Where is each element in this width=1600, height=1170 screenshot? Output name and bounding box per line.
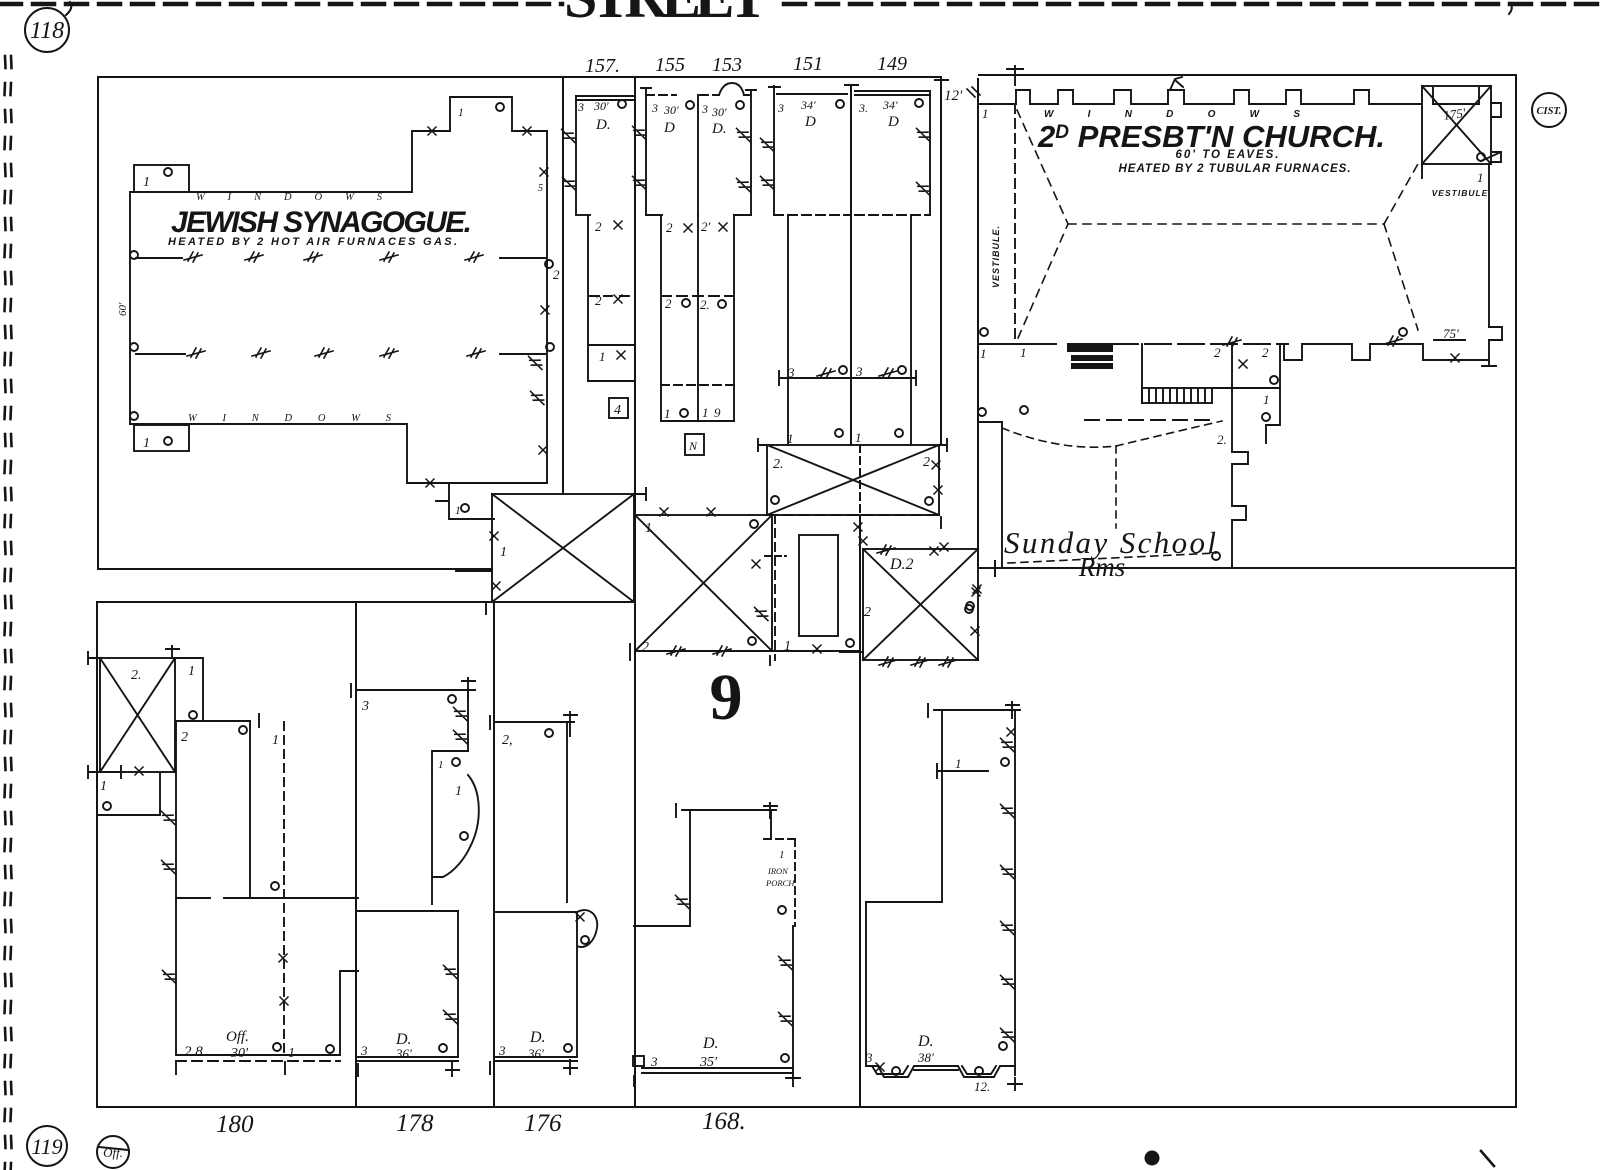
svg-text:WINDOWS: WINDOWS [188,413,413,424]
svg-text:D.2: D.2 [889,556,914,573]
svg-text:1: 1 [855,430,862,445]
svg-text:1: 1 [100,779,107,794]
svg-text:1: 1 [779,849,785,861]
svg-text:2': 2' [701,219,711,234]
svg-text:75': 75' [1443,326,1459,341]
svg-text:D.: D. [595,117,611,133]
svg-text:VESTIBULE.: VESTIBULE. [991,225,1001,288]
svg-text:2.: 2. [773,457,784,472]
svg-text:Off.: Off. [103,1145,123,1160]
svg-text:1: 1 [645,521,652,536]
svg-text:2: 2 [181,730,188,745]
svg-text:3: 3 [701,102,708,116]
svg-text:118: 118 [30,18,64,44]
svg-text:9: 9 [710,661,743,734]
svg-text:1: 1 [455,505,461,517]
svg-text:JEWISH SYNAGOGUE.: JEWISH SYNAGOGUE. [171,206,473,239]
svg-text:1: 1 [787,431,794,446]
svg-text:3: 3 [865,1050,873,1065]
svg-text:3: 3 [651,101,658,115]
svg-text:178: 178 [396,1110,434,1137]
svg-text:D.: D. [917,1033,934,1050]
svg-text:1: 1 [982,106,989,121]
svg-text:3: 3 [777,101,784,115]
svg-text:2,: 2, [502,733,513,748]
svg-text:168.: 168. [702,1108,746,1135]
svg-text:2.8.: 2.8. [184,1044,207,1060]
svg-text:1: 1 [288,1046,295,1061]
svg-text:175': 175' [1442,105,1466,123]
svg-text:1: 1 [955,756,962,771]
svg-text:2.: 2. [131,668,142,683]
svg-text:1: 1 [455,784,462,799]
svg-text:HEATED BY 2 TUBULAR FURNACES.: HEATED BY 2 TUBULAR FURNACES. [1118,163,1351,175]
svg-text:1: 1 [980,346,987,361]
svg-text:2.: 2. [1217,432,1227,447]
svg-text:N: N [688,439,698,453]
svg-text:2: 2 [665,296,672,311]
svg-text:60' TO EAVES.: 60' TO EAVES. [1175,149,1280,161]
svg-text:D.: D. [702,1035,719,1052]
svg-text:30': 30' [593,99,609,113]
svg-text:12.: 12. [974,1079,990,1094]
svg-text:5: 5 [538,183,543,194]
svg-text:38': 38' [917,1050,934,1065]
svg-text:9: 9 [714,405,721,420]
svg-text:30': 30' [711,105,727,119]
svg-text:1: 1 [188,664,195,679]
svg-text:1: 1 [143,436,150,451]
svg-text:3: 3 [650,1054,658,1069]
svg-text:CIST.: CIST. [1536,106,1561,117]
svg-text:3: 3 [361,699,369,714]
svg-text:1: 1 [1477,170,1484,185]
svg-text:1: 1 [458,107,464,119]
svg-text:180: 180 [216,1111,254,1138]
svg-text:2: 2 [553,267,560,282]
svg-text:1: 1 [599,349,606,364]
svg-text:1: 1 [500,545,507,560]
svg-text:2: 2 [595,293,602,308]
svg-text:1: 1 [438,759,444,771]
svg-text:3.: 3. [858,101,868,115]
svg-text:157.: 157. [585,55,620,77]
svg-text:3: 3 [498,1043,506,1058]
svg-text:119: 119 [31,1134,62,1159]
svg-text:2: 2 [1262,345,1269,360]
svg-text:35': 35' [699,1055,718,1070]
svg-text:D.: D. [711,121,727,137]
svg-text:1: 1 [1020,345,1027,360]
svg-text:2: 2 [864,605,871,620]
svg-text:3: 3 [577,100,584,114]
svg-text:STREET: STREET [564,0,776,30]
svg-text:176: 176 [524,1110,562,1137]
svg-text:VESTIBULE: VESTIBULE [1432,188,1489,198]
svg-text:1: 1 [702,405,709,420]
svg-text:2: 2 [595,219,602,234]
svg-text:Rms: Rms [1078,552,1126,582]
svg-text:WINDOWS: WINDOWS [196,192,402,203]
svg-text:PORCH: PORCH [765,878,795,888]
svg-text:HEATED BY 2 HOT AIR FURNACES G: HEATED BY 2 HOT AIR FURNACES GAS. [168,236,458,248]
svg-text:1: 1 [784,639,791,654]
svg-text:Off.: Off. [226,1029,249,1045]
svg-text:155: 155 [655,54,685,76]
svg-text:2: 2 [666,220,673,235]
svg-text:60': 60' [117,302,129,316]
svg-text:1: 1 [143,175,150,190]
svg-text:149: 149 [877,53,907,75]
svg-text:3: 3 [787,365,795,380]
svg-text:3: 3 [360,1043,368,1058]
svg-text:151: 151 [793,53,823,75]
svg-text:34': 34' [800,98,816,112]
svg-text:36': 36' [527,1046,544,1061]
svg-text:IRON: IRON [767,866,789,876]
svg-text:2: 2 [642,640,649,655]
svg-text:2.: 2. [700,297,710,312]
svg-text:2: 2 [1214,345,1221,360]
svg-text:153: 153 [712,54,742,76]
svg-text:WINDOWS: WINDOWS [1044,109,1334,120]
svg-text:30': 30' [230,1046,249,1061]
svg-text:1: 1 [272,733,279,748]
svg-text:12': 12' [944,88,963,104]
svg-text:36': 36' [395,1046,412,1061]
svg-text:D: D [887,114,899,130]
svg-text:34': 34' [882,98,898,112]
svg-text:3: 3 [855,364,863,379]
svg-text:D: D [663,120,675,136]
svg-text:30': 30' [663,103,679,117]
svg-text:1: 1 [664,406,671,421]
svg-text:4: 4 [614,403,621,418]
svg-text:1: 1 [1263,392,1270,407]
svg-text:D: D [804,114,816,130]
svg-text:2: 2 [923,455,930,470]
svg-text:D.: D. [529,1029,546,1046]
